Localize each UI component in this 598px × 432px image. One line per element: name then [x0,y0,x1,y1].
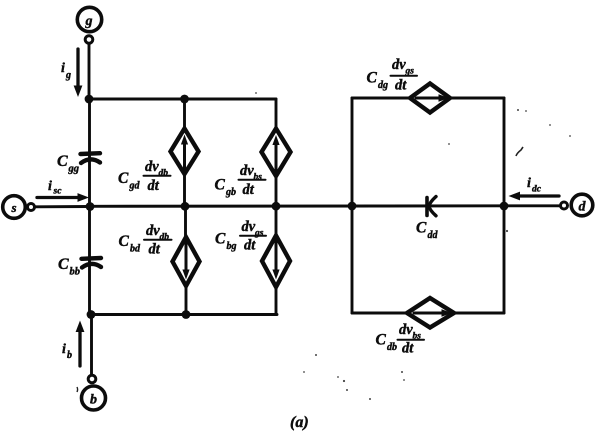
svg-text:g: g [85,14,93,29]
node main rail junction at right-left vertical [348,202,357,211]
dependent source Cbg (diamond, arrow down) [262,236,290,288]
svg-text:(a): (a) [290,414,309,431]
caption (a) [290,414,309,431]
current arrow isc [37,179,89,202]
wire D4 column lower [275,287,278,315]
svg-text:dv: dv [145,159,159,175]
svg-text:dt: dt [395,78,407,94]
svg-text:i: i [61,61,65,76]
label Cdb dvbs/dt [376,322,425,357]
wire D3 column upper [184,206,187,238]
capacitor Cbb [58,256,101,278]
svg-text:s: s [10,200,16,215]
wire g stub [88,44,91,100]
svg-text:dt: dt [243,182,255,198]
wire right top branch right [449,97,504,100]
wire D1 column lower [183,174,186,207]
svg-text:C: C [367,70,378,87]
wire D2 column upper [275,99,278,129]
node bottom rail junction at D3 column [182,310,191,319]
svg-text:C: C [376,332,387,349]
dependent source Cbd (diamond, arrow down) [173,237,200,286]
node s junction [86,202,95,211]
wire top rail [89,98,276,101]
svg-text:dv: dv [392,57,406,73]
current arrow idc [509,176,560,200]
svg-text:i: i [527,176,531,191]
svg-text:dv: dv [240,163,254,179]
svg-text:dg: dg [378,80,388,91]
svg-text:C: C [58,256,69,273]
wire b stub [90,315,93,376]
svg-text:gg: gg [68,164,80,175]
svg-text:bb: bb [70,267,81,278]
svg-text:C: C [215,177,226,194]
svg-text:C: C [215,231,226,248]
svg-text:dt: dt [148,178,160,194]
node top rail junction at D1 column [180,95,189,104]
svg-text:dt: dt [149,242,161,258]
label Cbd dvdb/dt [119,223,172,258]
svg-text:bg: bg [227,241,237,252]
svg-text:bd: bd [130,244,141,255]
svg-text:gs: gs [254,229,264,239]
wire right bottom branch right [453,312,504,315]
dependent source Cgb (diamond, arrow up) [262,129,291,177]
svg-text:C: C [119,233,130,250]
svg-text:gb: gb [225,187,236,198]
svg-text:g: g [65,70,71,81]
wire right top branch left [352,97,411,100]
wire left vertical (g-s-b column) [88,99,91,315]
svg-text:dc: dc [532,185,542,195]
label Cgb dvbs/dt [215,163,266,198]
current arrow ib [62,321,84,367]
wire s stub [35,205,90,208]
wire D4 column upper [275,206,278,236]
svg-text:db: db [160,233,170,243]
svg-text:d: d [579,200,587,215]
svg-text:i: i [62,342,66,357]
svg-text:dv: dv [146,223,160,239]
current arrow ig [61,49,82,97]
terminal s [3,196,35,219]
terminal g [77,7,101,43]
wire main rail [90,204,561,207]
wire right block right vertical [503,98,506,313]
dependent source Cdg (diamond, arrow right) [410,84,450,113]
svg-text:dt: dt [402,341,414,357]
dependent source Cdb (diamond, arrow right) [407,298,454,328]
node bottom-left junction [87,310,96,319]
svg-text:C: C [416,220,427,237]
wire D1 column upper [183,99,186,129]
node main rail junction at D2 column [272,202,281,211]
svg-text:dv: dv [399,322,413,338]
svg-text:b: b [90,393,97,408]
svg-text:dt: dt [244,238,256,254]
svg-text:db: db [159,169,169,179]
capacitor Cgg [57,153,100,175]
label Cbg dvgs/dt [215,219,266,254]
label Cdg dvgs/dt [367,57,418,94]
svg-text:dv: dv [242,219,256,235]
svg-text:sc: sc [53,187,63,197]
dependent source Cgd (diamond, arrow up) [171,129,199,175]
svg-text:dd: dd [428,230,439,241]
node main rail junction at right-right vertical [500,202,509,211]
svg-text:bs: bs [254,173,263,183]
wire right bottom branch left [352,312,408,315]
svg-text:C: C [57,153,68,170]
wire D3 column lower [185,286,188,315]
wire bottom rail [90,313,277,316]
svg-text:b: b [67,350,72,361]
node main rail junction at D1 column [181,202,190,211]
svg-text:i: i [48,179,52,194]
svg-text:db: db [387,342,397,353]
svg-text:gd: gd [129,181,141,192]
svg-text:C: C [118,170,129,187]
wire D2 column lower [275,176,278,207]
wire right block left vertical [351,98,354,313]
terminal d [561,194,593,216]
node top-left junction [85,95,94,104]
label Cgd dvdb/dt [118,159,171,194]
capacitor Cdd [416,197,439,242]
terminal b [82,375,106,410]
